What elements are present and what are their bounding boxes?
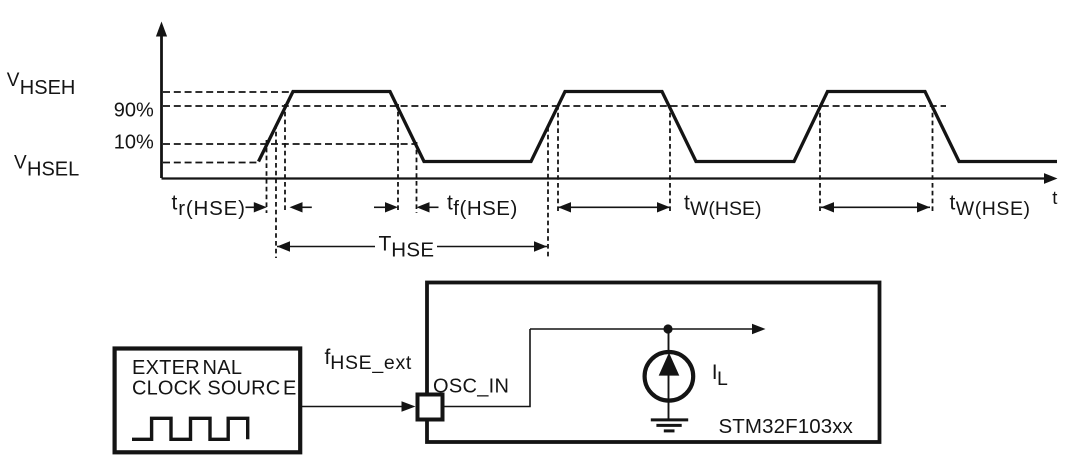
- svg-text:10%: 10%: [114, 131, 154, 153]
- tW(HSE) second double arrow: [821, 202, 930, 212]
- y axis: [160, 34, 163, 178]
- label IL: [712, 361, 728, 390]
- clock waveform: [259, 92, 1058, 162]
- label VHSEH: [7, 70, 76, 99]
- svg-text:HSE_ext: HSE_ext: [330, 352, 412, 374]
- wire from OSC_IN up to internal rail: [444, 329, 530, 407]
- dashed vertical fall1 10% crossing: [416, 142, 418, 213]
- node junction dot: [663, 324, 672, 333]
- svg-text:W(HSE): W(HSE): [956, 198, 1031, 220]
- svg-text:CLOCK SOURCE: CLOCK SOURCE: [132, 378, 296, 400]
- tr(HSE) measure arrow right-pointing: [246, 202, 267, 212]
- svg-text:STM32F103xx: STM32F103xx: [719, 415, 854, 438]
- svg-text:r(HSE): r(HSE): [178, 197, 245, 220]
- svg-text:HSEL: HSEL: [27, 159, 79, 181]
- svg-text:V: V: [7, 70, 20, 91]
- THSE double arrow: [277, 241, 547, 251]
- label tf(HSE): [447, 192, 518, 220]
- svg-text:f(HSE): f(HSE): [453, 197, 518, 220]
- label tW(HSE) first: [684, 192, 762, 220]
- svg-text:T: T: [379, 233, 392, 256]
- dashed vertical rise1 10% crossing: [266, 140, 268, 213]
- svg-text:W(HSE): W(HSE): [690, 198, 762, 220]
- dashed vertical fall2 90% crossing: [669, 105, 671, 213]
- dashed vertical fall1 90% crossing: [397, 104, 399, 213]
- tr(HSE) measure arrow left-pointing: [290, 202, 312, 212]
- svg-text:t: t: [1052, 187, 1057, 208]
- svg-text:HSE: HSE: [391, 239, 434, 262]
- label THSE: [379, 233, 435, 262]
- tf(HSE) measure arrow left-pointing: [417, 202, 439, 212]
- wire node to current source: [668, 329, 670, 354]
- svg-text:t: t: [950, 192, 956, 215]
- svg-text:t: t: [447, 192, 453, 215]
- svg-text:90%: 90%: [114, 100, 154, 122]
- label VHSEL: [14, 153, 79, 181]
- dashed vertical rise2 90% crossing: [557, 105, 559, 213]
- label tW(HSE) second: [950, 192, 1031, 220]
- dashed vertical rise1 90% crossing: [284, 104, 286, 213]
- dashed vertical rise1 50% crossing (THSE left): [275, 124, 277, 258]
- OSC_IN pin square: [418, 395, 443, 420]
- dashed level line 90%: [163, 105, 946, 107]
- square wave symbol: [132, 418, 248, 439]
- svg-text:EXTERNAL: EXTERNAL: [132, 357, 242, 379]
- wire arrow from clock source to OSC_IN: [302, 401, 416, 411]
- label tr(HSE): [172, 192, 246, 220]
- tf(HSE) measure arrow right-pointing: [374, 202, 398, 212]
- svg-text:L: L: [717, 368, 728, 390]
- dashed level line VHSEH: [163, 91, 291, 93]
- svg-text:OSC_IN: OSC_IN: [433, 376, 509, 398]
- dashed vertical rise2 50% crossing (THSE right): [547, 127, 549, 258]
- wire current source to ground: [668, 375, 670, 419]
- dashed level line 10%: [163, 143, 416, 145]
- svg-text:V: V: [14, 153, 27, 174]
- svg-text:t: t: [172, 192, 178, 215]
- external clock source box: [115, 349, 301, 453]
- svg-text:HSEH: HSEH: [20, 77, 76, 99]
- dashed vertical fall3 90% crossing: [932, 105, 934, 213]
- STM32F103xx box: [427, 283, 880, 443]
- dashed level line VHSEL: [163, 162, 258, 164]
- current source IL circle: [645, 352, 694, 401]
- dashed vertical rise3 90% crossing: [819, 105, 821, 213]
- ground symbol: [651, 420, 688, 431]
- label fHSE_ext: [325, 346, 413, 374]
- tW(HSE) first double arrow: [558, 202, 670, 212]
- x axis arrowhead: [1044, 173, 1058, 184]
- internal rail wire with arrow: [530, 324, 766, 334]
- current source arrow (triangle): [659, 353, 680, 376]
- y axis arrowhead: [156, 22, 167, 37]
- x axis: [162, 177, 1046, 179]
